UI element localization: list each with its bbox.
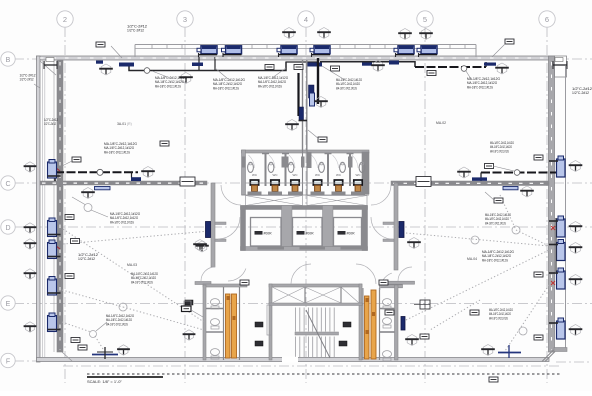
keynote hex corridor [314, 97, 328, 108]
elevator car 1 [251, 218, 285, 250]
label box [331, 66, 340, 71]
annotation text small [572, 87, 592, 95]
wall exterior bottom [37, 358, 550, 362]
toilet stall fixture at 317.5 [311, 162, 325, 195]
grid line C [14, 182, 592, 184]
corridor walls grid4 upper [303, 60, 307, 150]
annotation text block [104, 142, 137, 154]
label box [96, 42, 105, 47]
keynote hex lobby left [195, 241, 209, 252]
svg-text:3: 3 [183, 15, 187, 24]
svg-text:MA-03: MA-03 [127, 263, 137, 267]
navy pad on C wall [131, 177, 141, 181]
toilet stall fixture at 295 [288, 162, 302, 195]
wall dash pattern [42, 182, 205, 184]
stair treads lower [296, 337, 335, 359]
label box [294, 65, 303, 70]
SP symbol grid3 [182, 301, 204, 317]
text leader lines [493, 166, 514, 171]
vestibule cross bracing left [246, 196, 303, 206]
device lobby left [206, 222, 211, 238]
svg-text:2: 2 [63, 15, 67, 24]
panel navy bar 6 [389, 61, 399, 65]
device left wall [48, 240, 61, 259]
label box [71, 338, 80, 343]
dotted leader right room 1 [406, 233, 549, 246]
wall C-line left [40, 181, 207, 185]
stall divider [282, 153, 289, 186]
svg-text:3A-01 (R): 3A-01 (R) [117, 122, 132, 126]
lobby wall right [383, 183, 398, 270]
damper box VD left [180, 177, 195, 186]
stair treads upper [296, 308, 335, 332]
label box [505, 39, 514, 44]
svg-text:MA-1/8"C-2#12,1#12G: MA-1/8"C-2#12,1#12G [155, 84, 181, 88]
pilaster [282, 157, 289, 168]
device lobby right [399, 222, 404, 238]
keynote hex left [24, 239, 37, 249]
grid line B [14, 58, 592, 60]
navy pad on C wall right [472, 177, 487, 180]
grid bubble C [1, 176, 15, 190]
box leader lines [485, 192, 494, 200]
svg-text:MA-02: MA-02 [436, 121, 446, 125]
elevator block walls [241, 206, 368, 251]
annotation text block [467, 77, 500, 89]
annotation text block [110, 212, 140, 224]
annotation text block [131, 272, 158, 284]
room block bottom-left walls [195, 282, 247, 361]
panel navy bar 5 [362, 63, 372, 66]
keynote hex mid-left2 [141, 167, 155, 178]
label box [470, 310, 479, 315]
keynote hex stair right [405, 335, 419, 346]
wall exterior right [549, 56, 555, 352]
stair landing bar [295, 332, 339, 335]
C line through stalls [245, 182, 362, 184]
svg-text:D: D [5, 225, 10, 232]
svg-text:MA-1/8"C-2#12,1#12G: MA-1/8"C-2#12,1#12G [482, 258, 508, 262]
keynote hex [179, 73, 193, 84]
toilet stall fixture at 358 [351, 162, 365, 195]
svg-text:MA-1/8"C-2#12,1#12G: MA-1/8"C-2#12,1#12G [104, 150, 130, 154]
wall stub bottom-right [554, 348, 567, 352]
corridor panel navy 1 [309, 85, 315, 98]
svg-text:#00R: #00R [264, 232, 273, 236]
panel navy bar 3 [192, 63, 203, 67]
light fixture F5 [394, 46, 414, 55]
door arc toilets left [221, 185, 241, 205]
label box [65, 274, 74, 279]
keynote hex bottom-right [481, 345, 495, 356]
svg-text:WC: WC [336, 173, 342, 177]
panel navy bar 2 [307, 63, 322, 67]
svg-text:MA-04: MA-04 [467, 257, 477, 261]
canopy band ticks [152, 45, 465, 49]
keynote hex lobby right [407, 238, 421, 249]
keynote hex [371, 61, 385, 72]
svg-text:1/2"C-2#12: 1/2"C-2#12 [127, 29, 144, 33]
keynote hex left [24, 269, 37, 279]
dotted leader right room 4 [430, 300, 480, 330]
stair direction line [306, 310, 330, 358]
door arc toilets right [371, 185, 391, 205]
riser conduit grid4 second [297, 73, 299, 116]
svg-text:E: E [6, 301, 11, 308]
svg-text:C: C [5, 181, 10, 188]
corridor walls grid4 lower [303, 150, 312, 195]
wiring run right mid [481, 170, 556, 181]
label box [160, 141, 169, 146]
door arc lobby right [371, 217, 393, 239]
label box [65, 215, 74, 220]
grid line 4 [305, 27, 307, 383]
svg-text:MA-1/8"C-2#12,1#12G: MA-1/8"C-2#12,1#12G [106, 322, 128, 326]
grid line 6 [546, 27, 548, 383]
wc fixture bottom-left [211, 319, 220, 329]
label box [71, 239, 80, 244]
svg-text:WC: WC [293, 173, 299, 177]
svg-text:WC: WC [315, 173, 321, 177]
elevator car 3 [334, 218, 365, 250]
stall door arcs [249, 155, 255, 168]
stall divider [347, 153, 354, 186]
dotted leader right room 3 [505, 285, 549, 351]
riser conduit grid4 [317, 58, 319, 104]
svg-text:MA-1/8"C-2#12,1#12G: MA-1/8"C-2#12,1#12G [213, 86, 239, 90]
svg-text:MA-1/8"C-2#12,1#12G: MA-1/8"C-2#12,1#12G [490, 149, 509, 153]
svg-text:B: B [6, 57, 11, 64]
label box [379, 280, 388, 285]
label box [534, 272, 543, 277]
keynote hex [495, 63, 509, 74]
svg-text:MA-1/8"C-2#12,1#12G: MA-1/8"C-2#12,1#12G [489, 316, 508, 320]
orange conduit right [365, 290, 377, 359]
grid bubble B [1, 52, 15, 66]
label box [427, 71, 436, 76]
chase walls left [224, 285, 240, 360]
annotation text small [20, 74, 36, 82]
svg-text:MA-1/8"C-2#12,1#12G: MA-1/8"C-2#12,1#12G [258, 84, 282, 88]
svg-text:4: 4 [304, 15, 308, 24]
dash-dot stub bottom-right [556, 361, 592, 363]
pilaster [348, 157, 353, 168]
keynote hex [282, 28, 296, 39]
keynote hex right [569, 275, 583, 286]
annotation text block [106, 314, 134, 326]
panel navy bar 1 [119, 63, 134, 67]
damper box VD right [416, 177, 431, 187]
svg-text:1/2"C-2#12: 1/2"C-2#12 [44, 122, 56, 126]
svg-text:MA-1/8"C-2#12,1#12G: MA-1/8"C-2#12,1#12G [131, 280, 153, 284]
svg-text:MA-1/8"C-2#12,1#12G: MA-1/8"C-2#12,1#12G [467, 85, 493, 89]
annotation text block [258, 76, 288, 88]
stair block walls [269, 284, 362, 360]
dimension mark top-right [553, 58, 567, 70]
blue strip light right mid [503, 187, 518, 190]
grid line 3 [184, 27, 186, 383]
keynote hex [419, 29, 433, 40]
chase walls right [363, 288, 380, 360]
blue strip light left mid [95, 187, 111, 190]
dotted leader right upper [500, 195, 516, 230]
tee mark bottom-left [92, 347, 118, 359]
label box [494, 198, 503, 203]
grid line F [14, 360, 36, 362]
wiring run top-right [320, 62, 486, 71]
door gap bottom wall [282, 357, 298, 362]
panel navy bar 4 [484, 63, 496, 66]
exterior face line right [565, 66, 567, 348]
annotation text block [489, 308, 513, 320]
corridor panel navy 2 [310, 93, 315, 106]
keynote hex right [569, 222, 583, 233]
grid bubble 3 [177, 11, 193, 27]
keynote hex left [24, 322, 37, 332]
device left wall [48, 277, 61, 296]
keynote hex bottom-left [117, 345, 130, 355]
grid line E [14, 303, 592, 305]
svg-text:WC: WC [252, 173, 258, 177]
grid bubble E [1, 296, 15, 310]
door arcs bottom rooms [201, 267, 215, 281]
label box [240, 280, 249, 285]
keynote hex right [569, 325, 583, 336]
red tick marks [551, 226, 555, 285]
label box [485, 164, 494, 169]
device left wall [48, 218, 61, 237]
red tick device [56, 168, 60, 171]
label box [78, 345, 87, 350]
svg-text:#00R: #00R [347, 232, 356, 236]
keynote hex mid-left [81, 188, 95, 199]
device stair right [401, 317, 405, 331]
svg-text:1/2"C-2#12: 1/2"C-2#12 [572, 91, 589, 95]
keynote hex [99, 64, 113, 75]
annotation text small [44, 118, 58, 126]
keynote hex [317, 28, 331, 39]
svg-text:1/2"C-2#12: 1/2"C-2#12 [78, 257, 95, 261]
wc fixture bottom-right [383, 351, 392, 361]
dark label box [343, 322, 351, 327]
dotted leader left room up [63, 232, 204, 245]
label box [385, 310, 394, 315]
label box [265, 65, 274, 70]
device right wall [549, 240, 565, 261]
wall exterior top-right bump [555, 56, 567, 77]
light fixture F1 [197, 46, 217, 55]
wall exterior top [37, 56, 555, 60]
label box corridor [318, 137, 327, 142]
toilet stall fixture at 275 [268, 162, 282, 195]
keynote hex left [24, 223, 37, 233]
room block bottom-right walls [380, 281, 415, 360]
svg-text:F: F [6, 358, 10, 365]
vestibule cross bracing right [307, 196, 367, 206]
wall C-line right [391, 181, 549, 186]
device right wall [549, 268, 565, 289]
svg-text:1/2"C-2#12: 1/2"C-2#12 [20, 78, 34, 82]
door arc lobby left [218, 217, 240, 239]
corner brace top-left [40, 61, 56, 75]
toilet stall fixture at 338.5 [332, 162, 346, 195]
keynote hex left [24, 162, 37, 172]
wc fixture bottom-left [211, 299, 220, 309]
dark label box [255, 322, 263, 327]
dimension mark left [44, 58, 57, 70]
annotation text block [482, 250, 514, 262]
annotation text block [490, 141, 514, 153]
grid line 2 [64, 27, 66, 383]
device left wall [48, 313, 61, 332]
annotation text block [485, 213, 511, 225]
grid bubble 2 [57, 11, 73, 27]
keyplan box [414, 300, 430, 309]
label box [534, 155, 543, 160]
door arcs above stairs [291, 264, 311, 284]
svg-text:SCALE: 1/8" = 1'-0": SCALE: 1/8" = 1'-0" [87, 379, 122, 384]
svg-text:6: 6 [545, 15, 549, 24]
wc fixture bottom-right [383, 299, 392, 309]
elevator car 2 [293, 218, 326, 250]
wall exterior left [37, 56, 41, 362]
orange conduit left [226, 294, 237, 358]
keynote hex grid3 bottom [183, 330, 196, 340]
wiring link to riser [286, 61, 317, 63]
keynote hex right [569, 161, 583, 172]
panel chunk far left [96, 61, 103, 64]
wc fixture bottom-right [383, 318, 392, 328]
device right wall [549, 216, 565, 237]
light fixture F3 [277, 46, 297, 55]
grid bubble 5 [417, 11, 433, 27]
device right wall [549, 156, 565, 177]
corner brace bottom-left [62, 352, 72, 361]
wall interior left shear [57, 60, 63, 352]
grid bubble 4 [298, 11, 314, 27]
canopy band top [135, 45, 476, 58]
dotted leader left room 3 [62, 322, 91, 332]
svg-text:MA-1/8"C-2#12,1#12G: MA-1/8"C-2#12,1#12G [110, 220, 134, 224]
corridor panel navy 3 [299, 107, 304, 121]
wiring run top-left [129, 57, 286, 73]
device right wall [549, 318, 565, 339]
toilet stall fixture at 254.5 [248, 162, 262, 195]
svg-text:5: 5 [423, 15, 427, 24]
label box [534, 335, 543, 340]
pilaster [301, 157, 305, 168]
slab edge dash-dot line bottom [63, 365, 560, 367]
toilet block walls [242, 150, 370, 195]
dotted leader left room 2 [62, 290, 123, 307]
label box [420, 334, 429, 339]
light fixture F4 [310, 46, 330, 55]
annotation text block [155, 76, 187, 88]
keynote hex [398, 29, 412, 40]
grid line 5 [424, 27, 426, 383]
lobby wall left [211, 183, 226, 267]
stair shaft braces [272, 287, 359, 303]
keynote hex right [569, 243, 583, 254]
svg-text:#00R: #00R [306, 232, 315, 236]
tee mark bottom-right [498, 345, 521, 358]
wc fixture bottom-left [211, 349, 220, 359]
annotation text block [336, 78, 362, 90]
label box left-mid [72, 157, 81, 162]
conduit right wall vertical [555, 218, 557, 272]
grid line D [14, 226, 592, 228]
wiring run left mid [55, 169, 138, 181]
device left wall [48, 160, 61, 179]
leader node circle C-D [84, 204, 92, 212]
dark label box [255, 341, 263, 346]
dark label box [339, 341, 347, 346]
keynote hex C-D [193, 240, 207, 251]
keynote hex on wiring right [457, 167, 471, 178]
annotation text small [78, 253, 98, 261]
dark label box [185, 300, 193, 305]
grid bubble F [1, 353, 15, 367]
dotted leader right room 2 [406, 250, 549, 320]
svg-text:MA-1/8"C-2#12,1#12G: MA-1/8"C-2#12,1#12G [336, 86, 357, 90]
dotted leader left room 1 [63, 229, 204, 322]
svg-text:WC: WC [356, 173, 362, 177]
light fixture F2 [222, 46, 242, 55]
svg-text:MA-1/8"C-2#12,1#12G: MA-1/8"C-2#12,1#12G [485, 221, 506, 225]
left wall inner lines [42, 60, 44, 357]
stall divider [325, 153, 332, 186]
grid bubble 6 [539, 11, 555, 27]
light fixture F6 [417, 46, 437, 55]
annotation text block [213, 78, 245, 90]
scale bar [87, 374, 560, 384]
keynote hex corridor low [285, 120, 299, 131]
stair inner wall left [267, 305, 272, 335]
label box [489, 377, 498, 382]
keynote hex right-mid [520, 186, 534, 197]
svg-text:WC: WC [273, 173, 279, 177]
annotation text small [127, 25, 147, 33]
grid bubble D [1, 220, 15, 234]
pilaster [242, 157, 246, 168]
stall divider [262, 153, 269, 186]
